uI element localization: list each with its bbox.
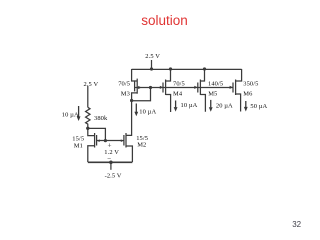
svg-text:-2.5 V: -2.5 V [105, 172, 122, 179]
svg-text:−: − [107, 155, 111, 163]
svg-text:140/5: 140/5 [208, 81, 223, 88]
svg-text:M2: M2 [137, 141, 146, 148]
svg-text:10 µA: 10 µA [62, 111, 79, 118]
svg-text:70/5: 70/5 [173, 81, 185, 88]
svg-text:M5: M5 [208, 91, 217, 98]
svg-text:M3: M3 [121, 91, 130, 98]
svg-text:350/5: 350/5 [243, 81, 258, 88]
svg-text:M6: M6 [243, 91, 253, 98]
svg-text:50 µA: 50 µA [250, 103, 267, 110]
svg-text:20 µA: 20 µA [216, 102, 233, 109]
svg-text:10 µA: 10 µA [181, 102, 198, 109]
svg-text:M4: M4 [173, 91, 183, 98]
svg-text:2.5 V: 2.5 V [145, 53, 160, 60]
svg-text:M1: M1 [74, 142, 83, 149]
svg-text:2.5 V: 2.5 V [84, 81, 99, 88]
svg-text:380k: 380k [94, 115, 108, 122]
svg-text:70/5: 70/5 [118, 81, 130, 88]
svg-text:10 µA: 10 µA [139, 108, 156, 115]
